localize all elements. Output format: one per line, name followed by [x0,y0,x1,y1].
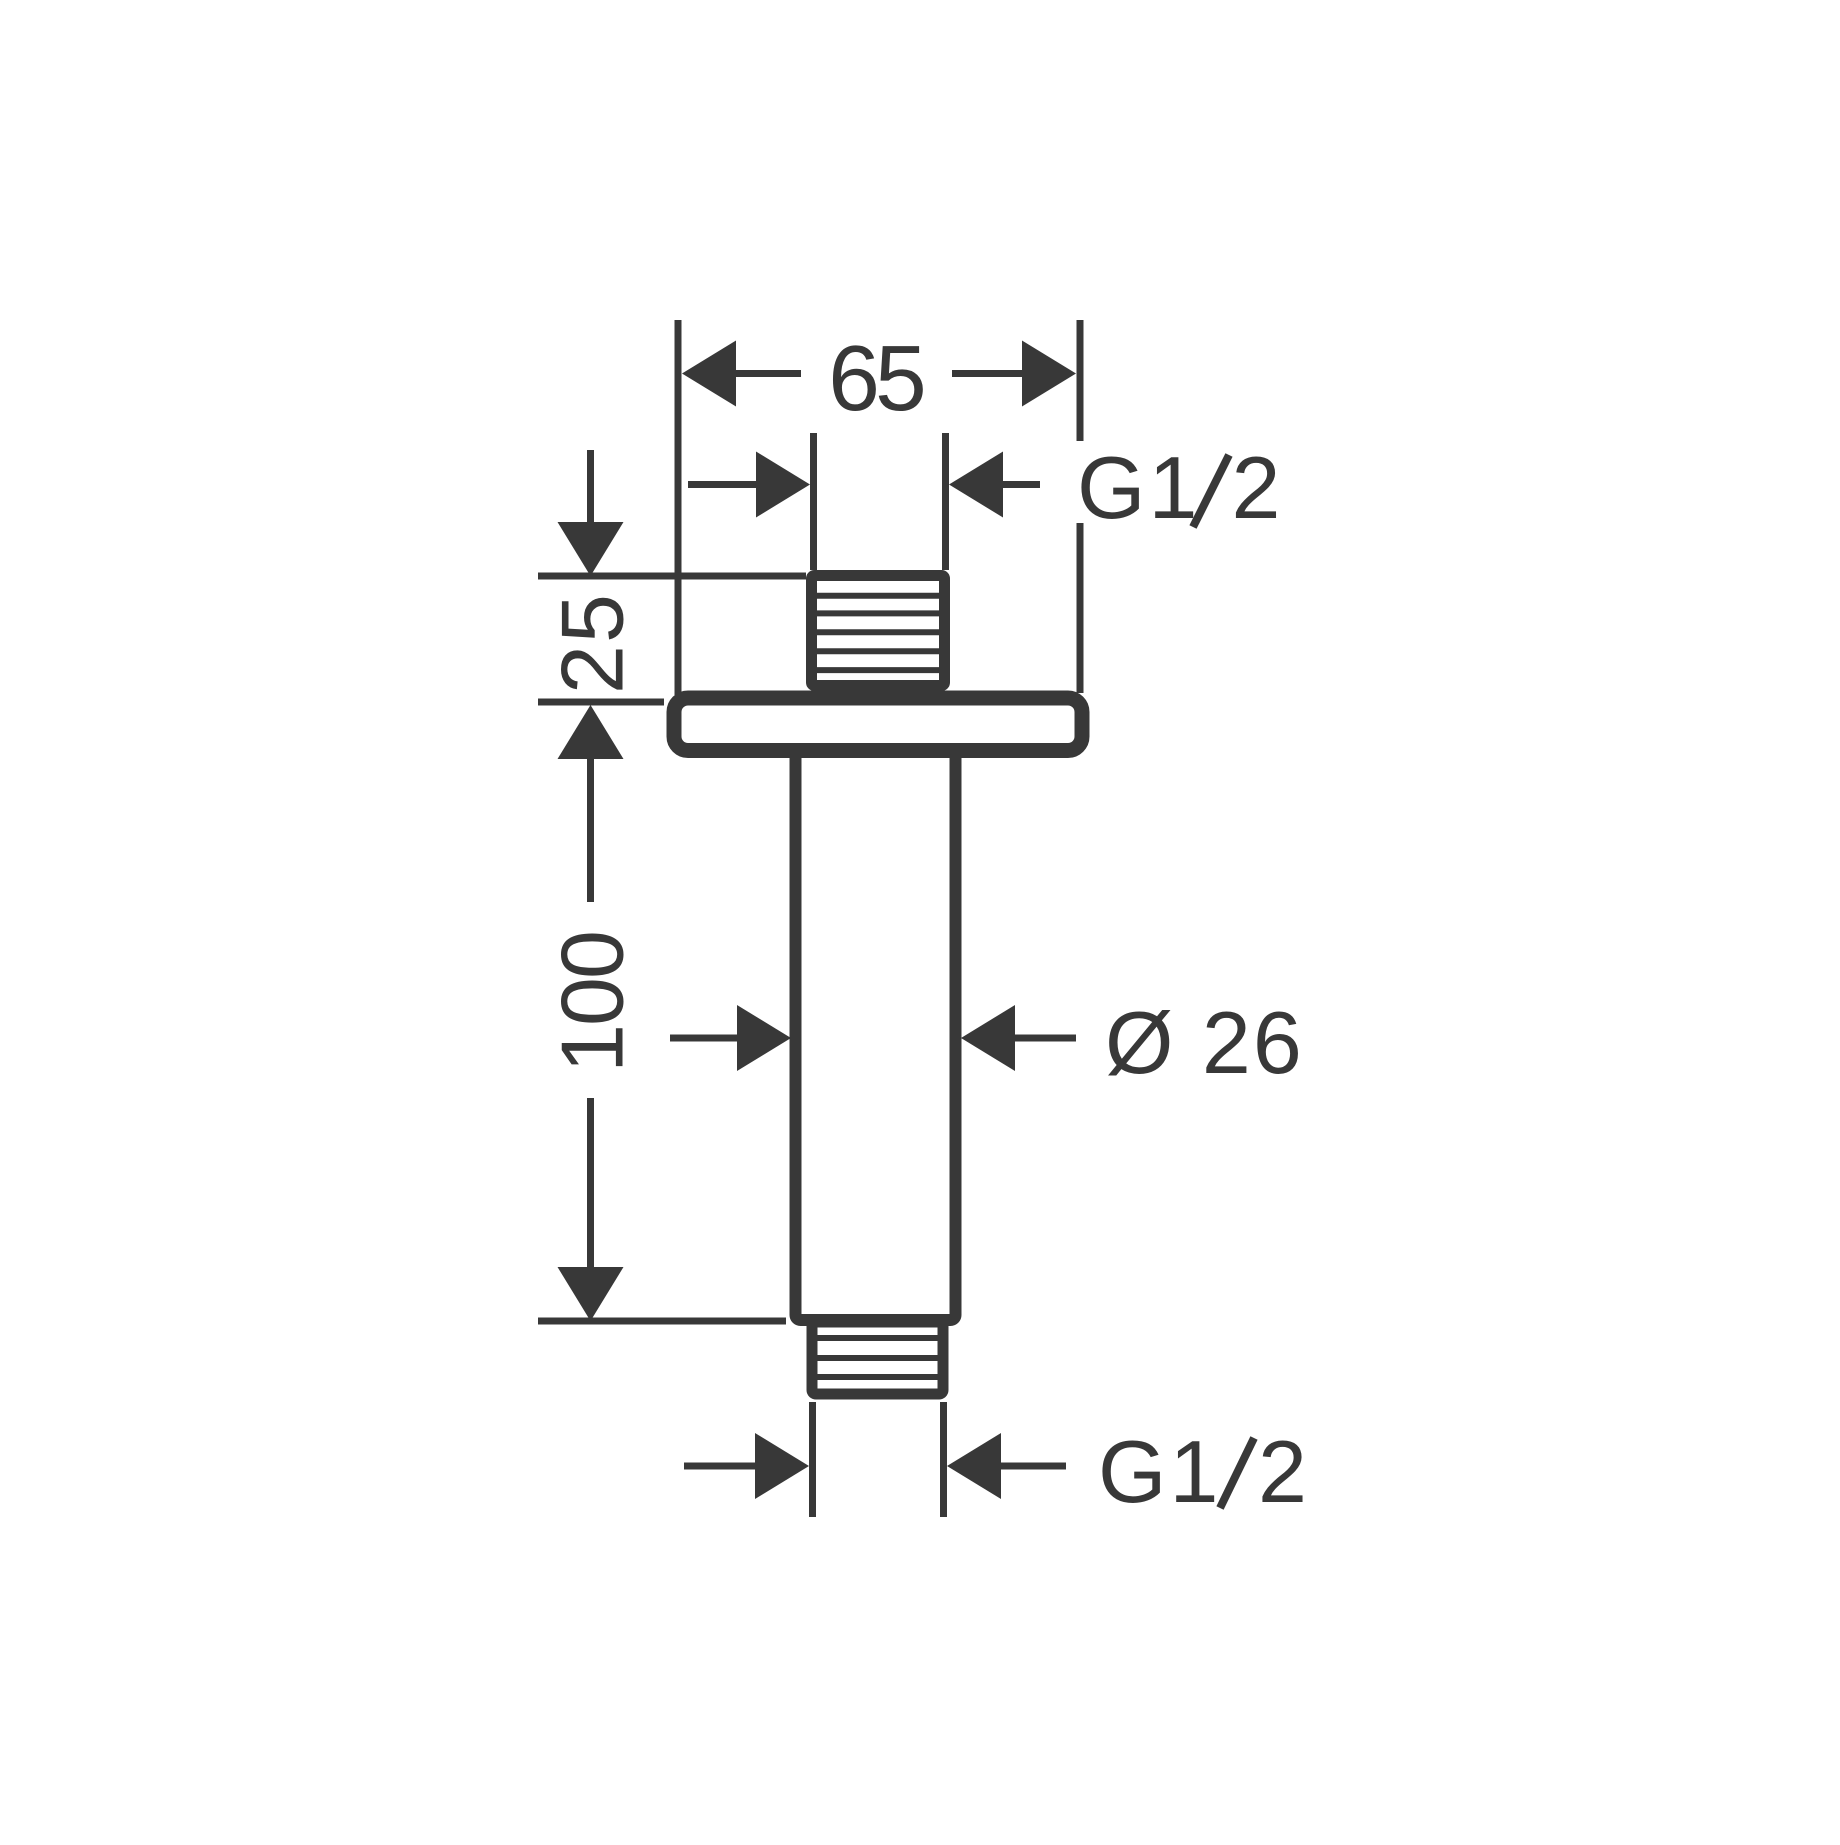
thread size label G1/2 bottom [1098,1422,1307,1521]
svg-text:25: 25 [543,592,642,694]
dimension G1/2 bottom: right extension line [940,1402,947,1517]
svg-text:65: 65 [828,326,923,430]
svg-text:100: 100 [543,932,642,1073]
dimension G1/2 bottom: left extension line [809,1402,816,1517]
svg-text:Ø 26: Ø 26 [1105,993,1304,1092]
dimension G1/2 bottom: left arrow [684,1463,757,1470]
dimension 25: lower extension line [538,699,664,706]
svg-text:G1: G1 [1077,438,1200,537]
thread ridge lines bottom [816,1338,939,1377]
dimension G1/2 top: left extension line [810,433,817,570]
dimension 65: left extension line [675,320,682,695]
dimension 100: lower stem and arrow (down) [587,1098,594,1269]
ceiling flange (escutcheon plate) [674,698,1082,751]
thread size label G1/2 top [1077,438,1280,537]
dimension 65: left arrow [682,341,736,407]
threaded connector top (G1/2 spigot) [812,576,945,686]
thread ridge lines top [815,596,941,670]
dimension 65: right extension line (broken for G1/2 label) [1077,320,1084,693]
dimension D26: right arrow [961,1005,1015,1071]
dimension 25: top arrow (down) [587,450,594,522]
dimension 100: bottom extension line [538,1318,786,1325]
dimension G1/2 bottom: right arrow [947,1433,1001,1499]
svg-text:G1: G1 [1098,1422,1221,1521]
svg-text:2: 2 [1232,438,1281,537]
dimension G1/2 top: right arrow [949,452,1003,518]
svg-text:2: 2 [1258,1422,1307,1521]
dimension 25: upper extension line [538,573,806,580]
pipe body (ceiling connector tube) [796,741,956,1320]
threaded connector bottom (G1/2 spigot) [812,1322,943,1394]
dimension G1/2 top: left arrow [688,481,762,488]
dimension 65: right arrow [1022,341,1076,407]
dimension G1/2 top: right extension line [942,433,949,570]
dimension 25: bottom arrow (up, shared with 100) [558,705,624,759]
dimension D26: left arrow [670,1035,744,1042]
